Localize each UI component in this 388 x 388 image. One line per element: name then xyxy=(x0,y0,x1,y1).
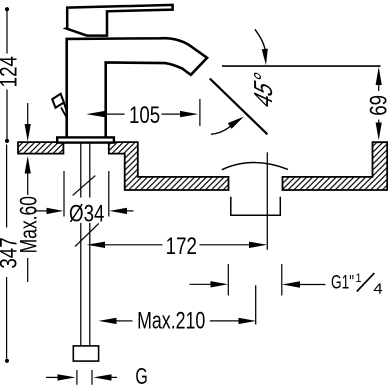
dimension 347 reference dot mid xyxy=(5,139,9,143)
svg-text:Max.60: Max.60 xyxy=(16,196,42,253)
side knob stem xyxy=(61,103,67,116)
G hose connector xyxy=(73,346,98,361)
dimension O34 left arrow xyxy=(34,210,47,212)
faucet handle lever xyxy=(66,5,172,36)
dimension G1 1/4 tick left xyxy=(227,264,229,296)
countertop step section xyxy=(109,142,229,190)
countertop left section xyxy=(18,142,63,154)
dimension Max.60 upper arrow xyxy=(27,103,29,125)
45 degree curved leader bottom xyxy=(211,126,231,134)
dimension G left arrow xyxy=(46,376,58,378)
dimension G1 1/4 right arrow xyxy=(282,281,300,287)
dimension Max.210 left arrow xyxy=(99,318,117,324)
45 degree curved leader top xyxy=(255,29,265,49)
dimension O34 extension line right xyxy=(108,171,110,217)
dimension 105 extension line xyxy=(199,99,201,126)
drain flange xyxy=(231,197,280,215)
svg-text:Ø34: Ø34 xyxy=(69,200,104,227)
dimension 347 line xyxy=(6,145,8,359)
dimension 172 right arrow xyxy=(200,244,250,246)
side knob square xyxy=(52,94,64,108)
dimension 105 right arrow xyxy=(162,113,181,115)
drain centerline xyxy=(266,152,268,250)
svg-text:105: 105 xyxy=(129,102,160,129)
dimension G1 1/4 left arrow xyxy=(190,283,211,285)
dimension 69 upper arrow xyxy=(376,67,382,85)
pipe break slash upper xyxy=(73,176,96,196)
svg-text:124: 124 xyxy=(0,56,22,87)
dimension G1 1/4 tick right xyxy=(281,264,283,296)
svg-text:1: 1 xyxy=(355,273,361,286)
dimension G tick right xyxy=(91,370,93,385)
faucet body and spout xyxy=(67,38,207,137)
dimension G tick left xyxy=(76,370,78,385)
supply pipe right xyxy=(89,144,91,346)
dimension 69 lower arrow xyxy=(378,120,380,123)
svg-text:4: 4 xyxy=(373,281,382,297)
svg-text:172: 172 xyxy=(166,233,197,260)
dimension O34 extension line left xyxy=(63,171,65,217)
dimension 124 line xyxy=(6,11,8,139)
faucet base plate xyxy=(57,137,114,142)
fraction one quarter xyxy=(357,273,375,291)
countertop right section xyxy=(283,142,388,190)
45 degree slope line xyxy=(210,79,268,135)
dimension 124 reference dot top xyxy=(5,7,9,11)
svg-text:G: G xyxy=(135,364,147,388)
pipe break slash lower xyxy=(75,223,99,246)
dimension 105 left arrow xyxy=(86,111,105,117)
dimension O34 right arrow xyxy=(109,208,127,214)
dimension O34 text xyxy=(68,198,106,224)
svg-text:G1": G1" xyxy=(331,271,354,293)
supply pipe left xyxy=(80,144,82,346)
dimension G right arrow xyxy=(93,374,111,380)
svg-text:Max.210: Max.210 xyxy=(137,308,205,334)
basin rim arc xyxy=(222,163,288,170)
dimension Max.210 right arrow xyxy=(210,320,239,322)
45 degree reference horizontal line xyxy=(222,65,381,67)
svg-text:69: 69 xyxy=(365,95,388,116)
drain tailpipe segment xyxy=(255,285,257,324)
dimension Max.60 lower arrow xyxy=(25,156,31,174)
dimension 172 left arrow xyxy=(87,242,105,248)
dimension 347 reference dot bottom xyxy=(5,359,9,363)
